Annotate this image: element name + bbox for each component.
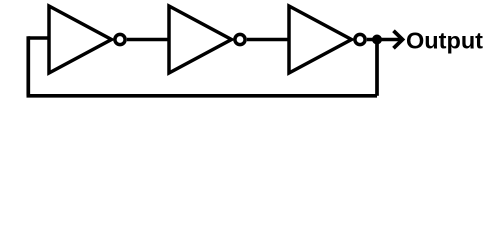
wire: feedback right vertical segment — [375, 40, 379, 96]
wire: U3 bubble to output node — [367, 38, 377, 42]
wire: feedback input stub to inverter U1 — [28, 36, 49, 40]
output arrow — [381, 38, 400, 42]
wire: feedback bottom horizontal segment — [27, 94, 378, 98]
wire: U1 to U2 — [127, 38, 169, 42]
wire: feedback left vertical segment — [26, 36, 30, 96]
inverter U2 triangle — [169, 6, 232, 73]
inverter U2 bubble — [235, 34, 245, 44]
inverter U3 triangle — [289, 6, 352, 73]
inverter U1 bubble — [115, 34, 125, 44]
inverter U3 bubble — [355, 34, 365, 44]
inverter U1 triangle — [49, 6, 112, 73]
junction dot: output node — [372, 35, 382, 45]
svg-text:Output: Output — [406, 28, 483, 54]
wire: U2 to U3 — [247, 38, 289, 42]
